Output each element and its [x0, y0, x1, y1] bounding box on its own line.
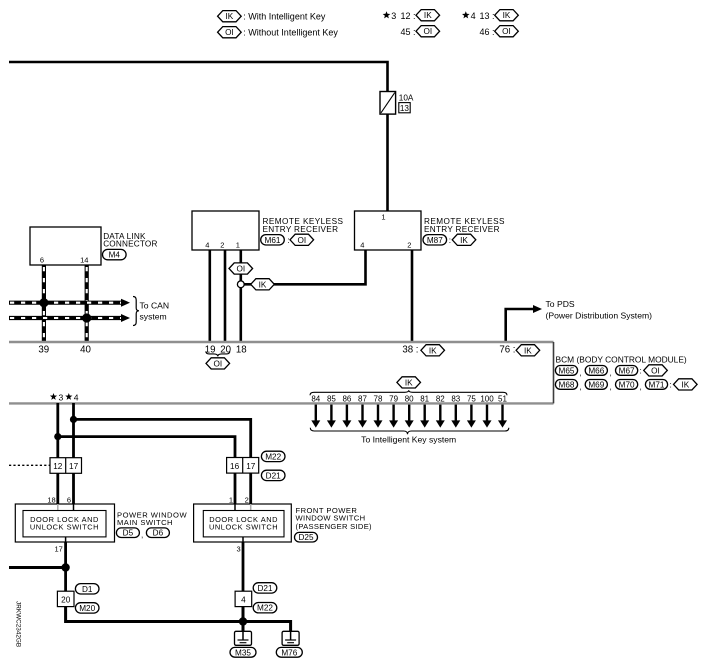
svg-text:M87: M87: [427, 236, 443, 245]
svg-text:IK: IK: [259, 280, 267, 289]
svg-text::: :: [449, 236, 451, 245]
svg-text:38 :: 38 :: [402, 344, 418, 355]
wire M61 pin4 to BCM pin19: [209, 250, 212, 342]
svg-text:D6: D6: [153, 529, 164, 538]
svg-text:D25: D25: [298, 533, 313, 542]
legend symbol IK (with intelligent key): [218, 11, 242, 22]
hexagon IK above intelligent key pins: [397, 377, 421, 388]
arrow from BCM pin 80: [405, 405, 414, 428]
arrow from BCM pin 82: [436, 405, 445, 428]
svg-text:17: 17: [55, 545, 63, 554]
legend star4 note: [462, 11, 495, 21]
svg-text:16: 16: [230, 462, 240, 471]
wire inside passenger switch pin2 gray: [250, 504, 252, 511]
label data link connector: [103, 232, 157, 249]
svg-text:13: 13: [400, 104, 410, 113]
arrow from BCM pin 86: [342, 405, 351, 428]
svg-text::: :: [670, 381, 672, 390]
label front power window switch passenger side: [296, 506, 373, 531]
svg-text:17: 17: [69, 462, 79, 471]
junction dot CAN-H at pin6 wire: [39, 298, 48, 307]
CAN-H wire to CAN system: [9, 301, 122, 305]
connector oval M65: [555, 366, 577, 376]
wire battery feed horizontal: [9, 62, 388, 92]
hexagon OI for M61: [290, 234, 314, 245]
svg-text:M66: M66: [588, 366, 604, 375]
svg-text:M20: M20: [79, 604, 95, 613]
connector oval D25: [295, 532, 318, 542]
svg-text:1: 1: [236, 240, 240, 249]
svg-text:,: ,: [610, 382, 612, 391]
box door lock and unlock switch inner (main): [23, 511, 106, 537]
svg-text:IK: IK: [226, 12, 234, 21]
junction dot star3 wire: [54, 433, 61, 440]
wire inside main switch pin18 gray: [57, 504, 59, 511]
svg-text:IK: IK: [524, 346, 532, 355]
svg-text:87: 87: [358, 394, 367, 403]
connector oval M4: [103, 249, 127, 259]
label remote keyless entry receiver M87: [424, 217, 505, 234]
svg-text:(Power Distribution System): (Power Distribution System): [546, 311, 653, 321]
svg-text:46 :: 46 :: [479, 27, 494, 37]
arrow CAN-H: [121, 299, 130, 307]
connector oval M22 upper: [261, 451, 285, 461]
arrow from BCM pin 84: [311, 405, 320, 428]
svg-text:2: 2: [245, 495, 249, 504]
svg-text:system: system: [140, 311, 167, 321]
connector oval D6: [146, 528, 169, 538]
svg-text:M4: M4: [109, 251, 121, 260]
svg-text:BCM (BODY CONTROL MODULE): BCM (BODY CONTROL MODULE): [556, 355, 687, 365]
svg-text:3: 3: [237, 545, 241, 554]
svg-text:D21: D21: [266, 471, 281, 480]
svg-text::: :: [287, 236, 289, 245]
wire pin12 to main switch pin18: [56, 473, 59, 504]
svg-text:D5: D5: [123, 529, 134, 538]
svg-text:IK: IK: [405, 378, 413, 387]
svg-text:4: 4: [241, 596, 246, 605]
wire star3 branch to connector D21 pin16: [58, 437, 235, 458]
svg-text:,: ,: [640, 382, 642, 391]
svg-text:1: 1: [381, 213, 385, 222]
svg-text:OI: OI: [423, 27, 432, 36]
svg-text:3: 3: [59, 392, 64, 402]
svg-text:,: ,: [610, 368, 612, 377]
connector oval M22 lower: [253, 603, 277, 613]
connector oval M61: [261, 235, 285, 245]
svg-text:2: 2: [220, 240, 224, 249]
svg-text:M76: M76: [281, 648, 297, 657]
wire inside main switch pin6: [73, 504, 75, 511]
svg-text:80: 80: [405, 394, 414, 403]
connector oval D21 upper: [261, 470, 285, 480]
box data link connector M4: [30, 227, 101, 265]
wire inside passenger switch pin1: [234, 504, 236, 511]
connector oval M87: [423, 235, 447, 245]
svg-text:M71: M71: [649, 380, 665, 389]
svg-text:MAIN SWITCH: MAIN SWITCH: [117, 518, 173, 527]
CAN-L wire to CAN system: [9, 316, 122, 320]
hexagon OI for BCM row1: [644, 365, 668, 376]
svg-text:IK: IK: [429, 346, 437, 355]
connector oval D21 lower: [253, 583, 277, 593]
svg-text:17: 17: [246, 462, 256, 471]
wire star4 branch to connector D21 pin17: [74, 419, 251, 457]
svg-text:To Intelligent Key system: To Intelligent Key system: [361, 434, 456, 444]
connector oval M20: [75, 603, 99, 613]
svg-text:6: 6: [67, 495, 71, 504]
wire junction to M35 ground: [242, 622, 245, 632]
arrow from BCM pin 81: [420, 405, 429, 428]
connector oval M67: [616, 366, 638, 376]
box power window main switch outer: [15, 504, 114, 542]
label power window main switch: [117, 510, 187, 527]
bracket over intelligent key pins: [310, 390, 507, 395]
connector oval D5: [116, 528, 139, 538]
dashed wire into connector pin12: [9, 464, 50, 466]
svg-text:10A: 10A: [399, 94, 414, 103]
connector oval M69: [585, 380, 607, 390]
ground symbol M35: [235, 631, 252, 645]
svg-text:12 :: 12 :: [400, 11, 415, 21]
svg-text:CONNECTOR: CONNECTOR: [103, 240, 157, 249]
ground symbol M76: [282, 631, 299, 645]
wire star4 BCM to connector D6 pin17: [72, 403, 75, 458]
connector boxes 12 and 17 (D6/M22 side left): [50, 458, 82, 474]
wire pin17 to passenger switch pin2: [249, 473, 252, 504]
svg-text:4: 4: [360, 240, 364, 249]
brace to CAN system: [133, 297, 139, 326]
svg-text:IK: IK: [424, 11, 432, 20]
svg-text:39: 39: [38, 344, 49, 355]
arrow CAN-L: [121, 314, 130, 322]
junction dot CAN-L at pin14 wire: [82, 313, 91, 322]
svg-text:OI: OI: [213, 359, 222, 368]
fuse 10A: [380, 92, 396, 115]
svg-text:20: 20: [61, 596, 71, 605]
wire pin17 to main switch pin6: [72, 473, 75, 504]
connector oval M71: [645, 380, 667, 390]
label star4 wire: [65, 392, 79, 402]
svg-text:75: 75: [467, 394, 476, 403]
wire inside main switch pin17: [65, 537, 67, 542]
brace under pins 19 20: [206, 351, 230, 356]
box remote keyless entry receiver M61: [192, 211, 259, 250]
box remote keyless entry receiver M87: [355, 211, 422, 250]
CAN wire from M4 pin6 to BCM pin39: [42, 265, 46, 342]
wire inside passenger switch pin3: [242, 537, 244, 542]
BCM box outline: [9, 342, 554, 403]
junction dot star4 wire: [70, 416, 77, 423]
svg-text:18: 18: [236, 344, 247, 355]
box front power window switch outer: [194, 504, 292, 542]
svg-text:ENTRY RECEIVER: ENTRY RECEIVER: [424, 225, 500, 234]
svg-text:4: 4: [471, 11, 476, 21]
svg-text:86: 86: [342, 394, 351, 403]
connector oval M68: [555, 380, 577, 390]
hexagon OI inline on pin1 wire: [229, 263, 253, 274]
arrow from BCM pin 87: [358, 405, 367, 428]
svg-text:82: 82: [436, 394, 445, 403]
svg-text:OI: OI: [297, 236, 306, 245]
svg-text:18: 18: [47, 495, 55, 504]
svg-text:M35: M35: [235, 648, 251, 657]
svg-text:12: 12: [53, 462, 63, 471]
hexagon OI under pins 19 20: [206, 358, 230, 369]
wire M61 pin2 to BCM pin20: [224, 250, 227, 342]
svg-text:4: 4: [205, 240, 209, 249]
hexagon IK at BCM pin 38: [421, 345, 445, 356]
ground oval M76: [276, 647, 302, 657]
arrow from BCM pin 75: [467, 405, 476, 428]
wire junction node to M87 pin4: [241, 250, 366, 284]
svg-text:M22: M22: [265, 452, 281, 461]
bracket under intelligent key arrows: [310, 428, 509, 434]
svg-text:ENTRY RECEIVER: ENTRY RECEIVER: [263, 225, 339, 234]
svg-text:,: ,: [141, 531, 143, 540]
label To PDS: [546, 299, 653, 321]
legend star3 note: [383, 11, 416, 21]
wire box4 to ground bus: [242, 607, 245, 622]
hexagon IK for M87: [452, 234, 476, 245]
svg-text:D21: D21: [257, 584, 272, 593]
wire star3 BCM to connector D6 pin12: [56, 403, 59, 458]
svg-text:40: 40: [80, 344, 91, 355]
wire passenger switch pin3 down: [242, 542, 245, 591]
svg-text:IK: IK: [681, 380, 689, 389]
arrow from BCM pin 51: [498, 405, 507, 428]
box door lock and unlock switch inner (passenger): [203, 511, 284, 537]
svg-text:51: 51: [498, 394, 507, 403]
legend star4 hexagon OI pin46: [495, 26, 519, 37]
svg-text:4: 4: [74, 392, 79, 402]
svg-text:(PASSENGER SIDE): (PASSENGER SIDE): [296, 522, 373, 531]
label star3 wire: [50, 392, 64, 402]
connector oval M66: [585, 366, 607, 376]
connector box 4 (D21/M22): [235, 591, 252, 606]
svg-text:JRKWC2342GB: JRKWC2342GB: [15, 601, 22, 647]
svg-text:85: 85: [327, 394, 336, 403]
svg-text:84: 84: [311, 394, 320, 403]
svg-text:81: 81: [420, 394, 429, 403]
svg-text:78: 78: [374, 394, 383, 403]
svg-text:M69: M69: [588, 380, 604, 389]
svg-text:M22: M22: [257, 604, 273, 613]
svg-text:45 :: 45 :: [400, 27, 415, 37]
arrow from BCM pin 79: [389, 405, 398, 428]
svg-text:D1: D1: [82, 585, 93, 594]
svg-text:M65: M65: [559, 366, 575, 375]
svg-text:79: 79: [389, 394, 398, 403]
svg-text:100: 100: [480, 394, 494, 403]
junction dot ground bus: [239, 617, 247, 625]
svg-text:M70: M70: [619, 380, 635, 389]
svg-text:76 :: 76 :: [499, 344, 515, 355]
svg-text:2: 2: [407, 240, 411, 249]
wire M61 pin1 to BCM pin18: [240, 250, 243, 342]
arrow from BCM pin 78: [374, 405, 383, 428]
svg-text:IK: IK: [503, 11, 511, 20]
svg-text:,: ,: [579, 382, 581, 391]
svg-text:: With Intelligent Key: : With Intelligent Key: [243, 11, 326, 21]
arrow from BCM pin 100: [483, 405, 492, 428]
hexagon IK for BCM row2: [674, 379, 698, 390]
svg-text:OI: OI: [502, 27, 511, 36]
connector oval M70: [616, 380, 638, 390]
svg-text:OI: OI: [651, 366, 660, 375]
svg-text:OI: OI: [225, 28, 234, 37]
wire main switch pin17 down: [64, 542, 67, 591]
junction dot ground bus left: [61, 563, 69, 571]
svg-text:To PDS: To PDS: [546, 299, 575, 309]
hexagon IK inline on wire to M87 pin4: [251, 279, 275, 290]
svg-text:To CAN: To CAN: [140, 301, 170, 311]
svg-text:M68: M68: [559, 380, 575, 389]
svg-text:OI: OI: [236, 265, 245, 274]
label To CAN system: [140, 301, 170, 322]
connector boxes 16 and 17 (M22/D21): [227, 458, 259, 474]
wire M87 pin2 to BCM pin38: [411, 250, 414, 342]
CAN wire from M4 pin14 to BCM pin40: [85, 265, 89, 342]
legend symbol OI (without intelligent key): [218, 27, 242, 38]
svg-text:13 :: 13 :: [479, 11, 494, 21]
svg-text:,: ,: [579, 368, 581, 377]
legend star3 hexagon IK pin12: [416, 10, 440, 21]
svg-text:3: 3: [391, 11, 396, 21]
arrow from BCM pin 83: [451, 405, 460, 428]
svg-text:M67: M67: [619, 366, 635, 375]
svg-text:83: 83: [451, 394, 460, 403]
svg-text:: Without Intelligent Key: : Without Intelligent Key: [243, 27, 338, 37]
svg-text:UNLOCK SWITCH: UNLOCK SWITCH: [209, 523, 278, 532]
svg-text:UNLOCK SWITCH: UNLOCK SWITCH: [30, 523, 99, 532]
legend star3 hexagon OI pin45: [416, 26, 440, 37]
fuse number box 13: [399, 103, 410, 113]
label remote keyless entry receiver M61: [263, 217, 344, 234]
legend star4 hexagon IK pin13: [495, 10, 519, 21]
svg-text:IK: IK: [460, 236, 468, 245]
svg-text:M61: M61: [265, 236, 281, 245]
ground oval M35: [230, 647, 256, 657]
open junction circle on pin1 wire: [237, 281, 244, 288]
svg-text:6: 6: [40, 256, 44, 265]
wire pin16 to passenger switch pin1: [234, 473, 237, 504]
wire box20 to ground bus: [66, 607, 243, 622]
wire ground bus to left edge: [9, 566, 66, 569]
svg-text:14: 14: [80, 256, 88, 265]
arrow from BCM pin 85: [327, 405, 336, 428]
arrow to PDS: [533, 305, 542, 313]
connector oval D1: [75, 584, 99, 594]
wire ground bus to M76 ground: [243, 622, 291, 632]
connector box 20 (D1/M20): [57, 591, 74, 606]
wire fuse to receiver M87 pin1: [386, 114, 389, 211]
svg-text:1: 1: [229, 495, 233, 504]
wire BCM pin76 to PDS: [506, 309, 534, 342]
hexagon IK at BCM pin 76: [516, 345, 540, 356]
svg-text::: :: [640, 367, 642, 376]
